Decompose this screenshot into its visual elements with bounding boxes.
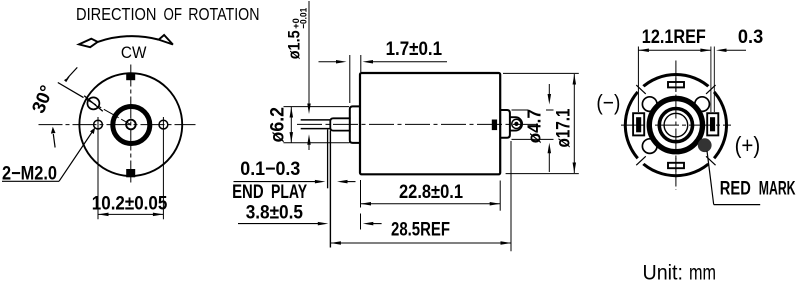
CW rotation arc [98,36,159,42]
svg-text:Unit:: Unit: [643,262,684,282]
red mark leader [707,151,714,205]
bottom notch rectangle [668,163,684,168]
vent hole TR [695,97,710,112]
phi17.1 extension top [503,72,579,74]
end play leader + arrow [234,181,318,183]
svg-text:(−): (−) [596,90,620,115]
svg-text:END: END [232,182,264,203]
10.2 extension line left [97,117,99,219]
12.1REF extension left [637,47,639,113]
svg-text:ø6.2: ø6.2 [268,107,289,143]
phi4.7 dimension arrows [548,84,550,97]
hub ring [649,99,702,152]
dim 1.7 right line/arrow [370,61,447,63]
terminal tab [510,117,522,130]
22.8 dimension line [361,203,501,205]
dim phi6.2 line [290,107,292,143]
crimp notch NE [703,82,719,97]
centerline through notches [675,78,677,92]
vent hole TL [642,97,657,112]
CW arc right arrowhead [159,35,173,45]
phi17.1 extension bottom [506,173,579,175]
title DIRECTION OF ROTATION [76,4,260,24]
dim phi6.2 extension top [284,106,350,108]
end play / 28.5 reference line B [329,131,331,248]
red mark dot [698,138,712,152]
10.2 dimension line [98,213,163,215]
svg-text:0.1−0.3: 0.1−0.3 [240,159,300,180]
bearing boss ring [113,107,150,144]
bearing inner circle [664,113,688,137]
12.1REF dimension line [638,49,711,51]
crimp notch SE [703,153,719,168]
right view v centerline [675,61,677,191]
30-degree lower arrow [53,134,55,148]
top tab square [126,73,135,81]
top notch rectangle [668,82,684,87]
terminal base (filled) [492,120,497,131]
CW arc left arrowhead [79,39,98,48]
motor body [360,73,500,174]
phi17.1 dimension line [573,74,575,173]
3.8 leader + arrow [238,223,321,225]
dim 1.7 extension left [349,55,351,103]
svg-text:12.1REF: 12.1REF [642,27,706,48]
terminal right outer [707,113,718,135]
dim phi1.5 line + arrows [308,1,310,106]
terminal right bar [710,117,715,131]
svg-text:ROTATION: ROTATION [188,4,259,24]
28.5 extension right [510,141,512,251]
svg-text:mm: mm [689,262,716,282]
terminal left bar [636,117,641,132]
shaft circle [126,120,136,130]
vent hole BL [642,139,657,154]
bearing circle [659,109,692,142]
svg-text:(+): (+) [735,132,761,158]
svg-text:RED: RED [720,178,751,199]
svg-text:−0.01: −0.01 [298,7,309,29]
dim 1.7 left leader/arrow [319,61,340,63]
front bearing flange [350,106,361,142]
bottom tab square [126,169,135,177]
motor centerline [297,123,540,125]
svg-text:ø17.1: ø17.1 [554,108,575,147]
phi4.7 extension bottom [512,138,554,140]
svg-text:2−M2.0: 2−M2.0 [2,164,57,185]
left view horizontal centerline [39,124,196,126]
endbell boss [500,110,510,138]
svg-text:28.5REF: 28.5REF [391,220,450,241]
3.8 right arrow [363,222,374,226]
svg-text:DIRECTION: DIRECTION [76,4,157,24]
right view h centerline [621,124,731,126]
end play right arrow [337,180,348,184]
svg-text:MARK: MARK [759,178,796,199]
terminal left outer [633,113,644,135]
crimp notch SW [633,153,649,168]
phi4.7 extension top [512,109,529,111]
0.3 dimension arrow [716,49,727,53]
leader 2-M2.0 [2,180,59,182]
crimp notch NW [633,82,649,97]
svg-text:CW: CW [121,44,147,62]
right view outer circle [625,75,726,176]
30-degree upper arrow [68,67,78,78]
svg-text:1.7±0.1: 1.7±0.1 [386,39,443,60]
22.8 extension right [499,181,501,211]
22.8 / 3.8 extension line (body left) [360,180,362,208]
svg-text:10.2±0.05: 10.2±0.05 [92,193,168,214]
svg-text:ø1.5: ø1.5 [285,30,304,59]
30-degree ray (dash-dot) [86,99,131,124]
mounting hole left [94,120,103,129]
svg-text:0.3: 0.3 [738,27,763,48]
text phi1.5 +0/-0.01 (rotated) [285,7,310,59]
indexing hole with slash [87,97,99,109]
28.5 dimension line [330,242,511,244]
shaft knurl section [330,118,350,130]
mounting hole right [159,120,168,129]
dim phi6.2 extension bottom [284,142,350,144]
svg-text:PLAY: PLAY [271,182,307,203]
shaft top line [301,119,331,121]
terminal eyelet hole [512,119,521,128]
10.2 extension line right [162,117,164,219]
30-degree ray extension [58,83,84,98]
svg-text:22.8±0.1: 22.8±0.1 [399,182,463,203]
svg-text:OF: OF [164,4,183,24]
0.3 extension lines [710,47,712,113]
shaft bottom line [301,128,331,130]
left view outer circle [79,73,182,176]
svg-text:ø4.7: ø4.7 [525,109,545,143]
dim 1.7 extension right [360,55,362,72]
left view vertical centerline [130,65,132,185]
svg-text:3.8±0.5: 3.8±0.5 [246,202,304,223]
end play gap line A [327,130,329,189]
